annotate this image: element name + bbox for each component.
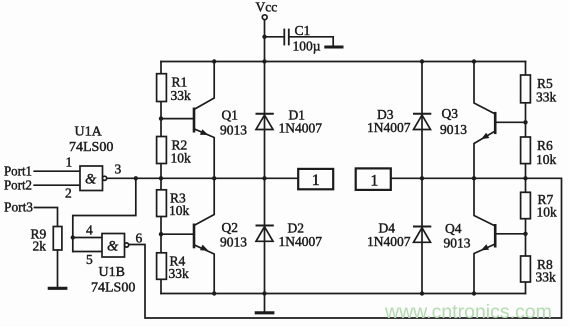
wire Q4 base — [495, 233, 525, 235]
svg-text:Port2: Port2 — [4, 178, 32, 193]
ground R9 — [49, 287, 66, 290]
transistor Q2 emitter arrow — [200, 245, 208, 251]
resistor R8 — [521, 256, 531, 282]
svg-text:Port3: Port3 — [4, 200, 33, 215]
transistor Q4 base bar — [494, 225, 497, 246]
node dot Q4 base — [523, 232, 527, 236]
wire C1 branch right — [289, 37, 333, 46]
wire U1B pin5 — [73, 251, 102, 253]
wire Port2 — [34, 184, 80, 186]
wire Port3 — [35, 208, 58, 227]
svg-text:1: 1 — [66, 155, 73, 170]
svg-text:9013: 9013 — [440, 122, 467, 137]
wire Vcc stub — [264, 20, 266, 62]
wire right divider column — [525, 62, 527, 294]
connector box 1 left — [298, 169, 333, 189]
resistor R2 — [157, 137, 167, 164]
node dot row right rail — [523, 176, 527, 180]
transistor Q1 base bar — [193, 109, 196, 131]
node dot row left rail — [159, 176, 163, 180]
wire D1 D2 column — [264, 62, 266, 294]
ground main — [256, 294, 273, 313]
transistor Q1 emitter arrow — [200, 129, 208, 135]
svg-text:1: 1 — [370, 173, 378, 190]
node dot row Q3 Q4 — [472, 176, 476, 180]
gate U1A body — [80, 166, 103, 191]
wire U1B pin4 — [73, 237, 102, 239]
node dot row Q1 Q2 — [212, 176, 216, 180]
wire left divider column — [160, 62, 162, 294]
resistor R1 — [157, 74, 167, 102]
svg-text:1: 1 — [312, 172, 320, 189]
transistor Q2 emitter — [194, 245, 214, 294]
node dot rail Q1 — [212, 59, 216, 63]
ground C1 — [326, 46, 342, 49]
svg-text:Port1: Port1 — [4, 164, 32, 179]
svg-text:100µ: 100µ — [293, 39, 321, 54]
node dot row D3 D4 — [420, 176, 424, 180]
wire Q1 base — [161, 118, 194, 120]
wire Q2 base — [161, 233, 194, 235]
svg-text:Q3: Q3 — [442, 106, 459, 121]
node dot rail D3 — [420, 59, 424, 63]
node dot Q3 base — [523, 120, 527, 124]
resistor R3 — [157, 190, 167, 217]
svg-text:R6: R6 — [537, 138, 553, 153]
wire Q3 base — [495, 121, 525, 123]
svg-text:9013: 9013 — [220, 235, 247, 250]
node Vcc terminal — [262, 15, 267, 20]
transistor Q1 emitter — [194, 129, 214, 179]
transistor Q1 collector — [194, 62, 214, 110]
svg-text:1N4007: 1N4007 — [367, 234, 411, 249]
resistor R9 — [53, 227, 62, 251]
svg-text:6: 6 — [136, 230, 143, 245]
svg-text:10k: 10k — [536, 152, 557, 167]
node dot pin3 tee — [134, 176, 138, 180]
resistor R7 — [521, 192, 531, 218]
wire D3 D4 column — [421, 62, 423, 294]
node dot rail Q3 — [472, 59, 476, 63]
svg-text:9013: 9013 — [220, 123, 247, 138]
svg-text:2: 2 — [65, 186, 72, 201]
gate U1A output bubble — [103, 176, 107, 180]
diode D2 — [256, 226, 273, 242]
svg-text:Q1: Q1 — [222, 108, 239, 123]
svg-text:www.cntronics.com: www.cntronics.com — [384, 301, 552, 323]
svg-text:1N4007: 1N4007 — [279, 121, 323, 136]
diode D3 — [414, 114, 431, 130]
transistor Q3 base bar — [494, 113, 497, 133]
wire top rail Vcc bus — [161, 61, 526, 63]
wire middle output row left (pin3 to motor box 1) — [107, 177, 298, 179]
node dot rail Vcc D1 — [262, 59, 266, 63]
capacitor C1 — [284, 30, 289, 45]
svg-text:9013: 9013 — [444, 236, 471, 251]
svg-text:10k: 10k — [169, 203, 190, 218]
resistor R6 — [521, 137, 531, 164]
node dot row D1 D2 — [262, 176, 266, 180]
svg-text:33k: 33k — [536, 90, 557, 105]
svg-text:1N4007: 1N4007 — [367, 120, 411, 135]
svg-text:33k: 33k — [171, 88, 192, 103]
node dot C1 tee — [262, 35, 266, 39]
svg-text:10k: 10k — [537, 205, 558, 220]
wire bottom ground rail — [161, 293, 526, 295]
transistor Q3 collector — [474, 62, 495, 115]
wire Port1 — [34, 170, 80, 172]
wire middle output row right + pin6 routing — [129, 178, 562, 318]
svg-text:2k: 2k — [33, 239, 47, 254]
wire R9 lower lead — [57, 250, 59, 287]
gate U1B body — [102, 234, 125, 258]
transistor Q3 emitter arrow — [481, 133, 489, 140]
svg-text:74LS00: 74LS00 — [69, 140, 113, 155]
svg-text:10k: 10k — [171, 151, 192, 166]
node dot bottom Q4 — [472, 291, 476, 295]
svg-text:1N4007: 1N4007 — [279, 234, 323, 249]
svg-text:74LS00: 74LS00 — [91, 281, 135, 296]
resistor R5 — [521, 75, 531, 103]
gate U1B output bubble — [125, 243, 129, 247]
svg-text:33k: 33k — [536, 270, 557, 285]
node dot bottom D4 — [420, 291, 424, 295]
svg-text:U1B: U1B — [99, 265, 125, 280]
diode D4 — [414, 227, 431, 243]
wire U1A output link to U1B inputs — [73, 178, 136, 251]
svg-text:&: & — [85, 171, 97, 187]
svg-text:&: & — [107, 239, 119, 255]
transistor Q2 collector — [194, 178, 214, 225]
transistor Q4 collector — [474, 178, 495, 226]
transistor Q3 emitter — [474, 131, 495, 178]
transistor Q4 emitter arrow — [481, 244, 489, 250]
node dot bottom Q2 — [212, 291, 216, 295]
node dot bottom D2 ground — [262, 291, 266, 295]
node dot U1B input tee — [71, 235, 75, 239]
resistor R4 — [157, 253, 167, 279]
node dot Q1 base — [159, 116, 163, 120]
svg-text:3: 3 — [115, 162, 122, 177]
node dot Q2 base — [159, 232, 163, 236]
transistor Q2 base bar — [193, 225, 196, 247]
svg-text:Vcc: Vcc — [256, 0, 278, 14]
svg-text:U1A: U1A — [75, 125, 103, 140]
svg-text:5: 5 — [86, 252, 93, 267]
svg-text:Q4: Q4 — [445, 221, 462, 236]
svg-text:C1: C1 — [295, 23, 311, 38]
connector box 1 right — [356, 168, 391, 190]
svg-text:4: 4 — [86, 222, 93, 237]
diode D1 — [256, 114, 273, 130]
svg-text:Q2: Q2 — [222, 220, 239, 235]
transistor Q4 emitter — [474, 244, 495, 294]
wire C1 branch left — [265, 36, 285, 38]
svg-text:33k: 33k — [169, 266, 190, 281]
